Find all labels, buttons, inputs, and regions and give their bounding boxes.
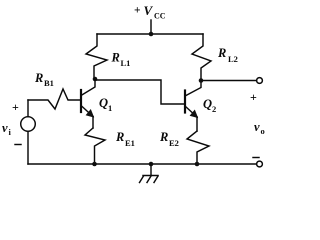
svg-text:+: + — [134, 5, 141, 17]
power +Vcc symbol — [134, 3, 166, 36]
svg-text:E2: E2 — [169, 138, 179, 148]
resistor RL2 — [192, 34, 238, 80]
svg-text:+: + — [12, 100, 19, 114]
svg-text:R: R — [115, 130, 124, 144]
svg-text:Q: Q — [99, 96, 108, 110]
svg-text:v: v — [2, 121, 8, 135]
node A: RL1 / Q1 collector junction — [93, 77, 98, 82]
svg-text:R: R — [111, 51, 120, 65]
transistor Q2 — [185, 81, 216, 118]
resistor RE1 — [85, 128, 135, 164]
svg-text:o: o — [261, 126, 265, 136]
svg-text:i: i — [9, 127, 12, 137]
svg-text:R: R — [217, 46, 226, 60]
wire source bottom lead — [27, 131, 29, 164]
svg-text:Q: Q — [203, 97, 212, 111]
svg-text:L2: L2 — [228, 54, 238, 64]
svg-text:V: V — [144, 3, 154, 18]
svg-text:CC: CC — [154, 12, 166, 21]
ground — [140, 162, 159, 183]
resistor RE2 — [159, 130, 209, 164]
svg-text:R: R — [34, 71, 43, 85]
terminal output bottom — [257, 161, 263, 167]
svg-text:B1: B1 — [44, 78, 54, 88]
svg-text:R: R — [159, 130, 168, 144]
wire top supply rail — [97, 33, 203, 35]
node C: RE2 to ground rail — [195, 162, 200, 167]
svg-text:2: 2 — [212, 104, 216, 114]
transistor Q1 — [81, 79, 112, 118]
svg-text:+: + — [250, 90, 257, 104]
label vo with polarity — [250, 90, 265, 158]
wire source top lead to RB1 — [27, 100, 29, 117]
wire bottom rail — [28, 163, 257, 165]
resistor RL1 — [86, 34, 130, 79]
node B: RE1 to ground rail — [92, 162, 97, 167]
node D: RL2 / Q2 collector / output junction — [199, 78, 204, 83]
source vi — [2, 100, 35, 145]
svg-text:E1: E1 — [125, 138, 135, 148]
wire Q1 emitter lead — [92, 117, 94, 129]
svg-text:L1: L1 — [121, 58, 131, 68]
terminal output top — [257, 78, 263, 84]
svg-text:v: v — [254, 120, 260, 134]
wire output top — [201, 80, 257, 82]
resistor RB1 — [28, 71, 80, 109]
wire interstage: Q1 collector to Q2 base — [95, 80, 184, 104]
svg-text:1: 1 — [108, 103, 112, 113]
wire Q2 emitter lead — [196, 117, 198, 131]
